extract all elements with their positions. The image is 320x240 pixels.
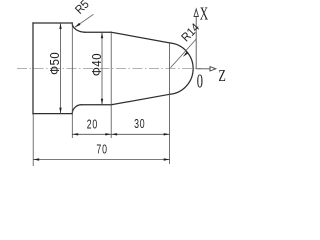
extension line step x=72.3: [71, 23, 73, 138]
leader R14: [171, 39, 197, 68]
top edge phi50: [33, 22, 72, 24]
30 arrow left: [111, 133, 117, 135]
X axis open arrow: [194, 9, 198, 17]
svg-text:70: 70: [96, 143, 107, 157]
extension and dimension lines: [33, 23, 169, 166]
svg-text:30: 30: [134, 118, 145, 132]
phi40 arrow down: [101, 99, 103, 105]
svg-text:Φ40: Φ40: [89, 53, 104, 76]
fillet R5 bottom: [72, 105, 81, 114]
fillet R5 top: [72, 23, 85, 32]
solid dimension arrows: [33, 23, 188, 161]
X axis: [195, 17, 197, 69]
Z axis: [196, 68, 210, 70]
extension line arc x=169.6: [169, 43, 171, 164]
extension line taper start x=111.2: [110, 32, 112, 138]
20 arrow right: [105, 133, 111, 135]
phi40 arrow up: [101, 32, 103, 38]
R5 leader arrow: [75, 23, 81, 28]
svg-text:X: X: [200, 4, 208, 24]
centerline: [17, 68, 201, 70]
20 arrow left: [72, 133, 78, 135]
R14 leader arrow: [183, 52, 188, 57]
svg-text:0: 0: [197, 70, 203, 93]
dim line 20/30: [72, 133, 169, 135]
leader R5: [75, 14, 94, 27]
taper top: [111, 32, 169, 43]
bottom edge phi40: [81, 104, 111, 106]
left end face: [32, 23, 34, 114]
Z axis open arrow: [210, 67, 216, 71]
extension line left (70): [32, 114, 34, 166]
svg-text:Z: Z: [218, 67, 225, 85]
phi50 arrow down: [59, 108, 61, 114]
bottom edge phi50: [33, 113, 72, 115]
dim line phi50: [60, 23, 62, 114]
30 arrow right: [164, 133, 170, 135]
dim line 70: [33, 159, 169, 161]
taper bottom: [111, 94, 169, 105]
dim line phi40: [101, 32, 103, 105]
70 arrow left: [33, 158, 39, 160]
70 arrow right: [164, 158, 170, 160]
nose arc R14: [170, 43, 194, 94]
svg-text:Φ50: Φ50: [47, 52, 62, 75]
svg-text:20: 20: [87, 118, 98, 132]
top edge phi40: [85, 31, 111, 33]
phi50 arrow up: [59, 23, 61, 29]
part outline: [33, 23, 193, 114]
